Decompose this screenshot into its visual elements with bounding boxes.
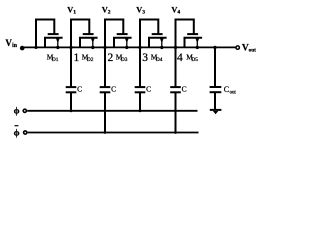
svg-text:C: C — [146, 85, 151, 94]
svg-text:in: in — [12, 43, 18, 49]
svg-text:D1: D1 — [52, 57, 59, 63]
svg-text:1: 1 — [74, 52, 80, 64]
svg-text:D3: D3 — [121, 57, 128, 63]
svg-text:C: C — [77, 85, 82, 94]
svg-text:2: 2 — [108, 9, 111, 15]
svg-text:3: 3 — [142, 9, 145, 15]
svg-text:C: C — [182, 85, 187, 94]
svg-text:ϕ: ϕ — [14, 107, 20, 117]
svg-text:3: 3 — [142, 52, 148, 64]
svg-text:out: out — [230, 90, 237, 95]
svg-text:C: C — [111, 85, 116, 94]
svg-text:D5: D5 — [191, 57, 198, 63]
svg-text:2: 2 — [108, 52, 114, 64]
svg-text:D4: D4 — [156, 57, 163, 63]
svg-text:1: 1 — [73, 9, 76, 15]
svg-text:C: C — [224, 85, 229, 94]
svg-text:D2: D2 — [87, 57, 94, 63]
svg-text:4: 4 — [177, 52, 183, 64]
svg-text:ϕ: ϕ — [14, 128, 20, 138]
svg-text:4: 4 — [177, 9, 180, 15]
svg-text:out: out — [249, 47, 256, 53]
